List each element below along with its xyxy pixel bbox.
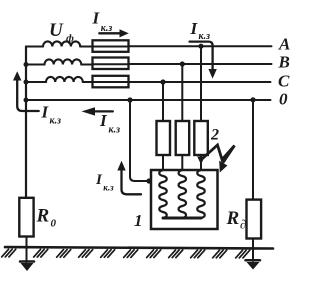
fuse F3 phase C xyxy=(93,76,129,88)
fuse F6 machine phase A xyxy=(194,121,208,155)
node: bus-line B junction xyxy=(24,62,29,67)
svg-text:I: I xyxy=(92,9,101,28)
resistor Rd repeated earthing xyxy=(247,200,262,239)
wire: Rd to earth xyxy=(252,239,254,262)
winding W1 phase C xyxy=(159,170,167,218)
wire: phase line C xyxy=(26,77,271,82)
current arrow I k.z up into star point xyxy=(13,71,61,126)
svg-text:B: B xyxy=(278,53,290,72)
svg-text:R: R xyxy=(226,208,240,229)
svg-text:I: I xyxy=(190,19,199,38)
svg-text:к.з: к.з xyxy=(109,125,121,136)
svg-text:к.з: к.з xyxy=(103,183,114,193)
node: bond at machine case xyxy=(146,178,151,183)
svg-text:I: I xyxy=(95,172,103,188)
svg-text:к.з: к.з xyxy=(101,23,113,34)
svg-text:к.з: к.з xyxy=(199,31,211,42)
node: bus-line C junction xyxy=(24,80,29,85)
node: line 0 tap to machine case xyxy=(127,97,132,102)
winding W3 phase A xyxy=(197,170,205,218)
svg-text:∂: ∂ xyxy=(240,218,246,232)
label R0 xyxy=(36,206,57,230)
resistor R0 neutral earthing xyxy=(19,198,33,237)
current arrow I k.z from line A down (fault path) xyxy=(190,19,217,79)
node: line B tap to machine xyxy=(180,61,185,66)
svg-text:R: R xyxy=(36,206,50,227)
label U phase voltage xyxy=(49,20,74,45)
label Rd xyxy=(226,208,247,232)
earth hatching xyxy=(2,249,250,258)
svg-text:A: A xyxy=(278,35,290,54)
fuse F4 machine phase C xyxy=(157,121,171,155)
ground electrode R0 xyxy=(20,262,34,272)
wire: phase line A xyxy=(26,41,272,46)
node: line 0 tap to Rd xyxy=(250,97,255,102)
svg-text:C: C xyxy=(278,72,290,91)
wire: drop from line A to machine fuse xyxy=(200,46,202,121)
winding W2 phase B xyxy=(179,170,187,218)
wire: drop from line B to machine fuse xyxy=(181,64,183,121)
wire: R0 to earth xyxy=(26,237,28,263)
ground electrode Rd xyxy=(246,260,261,269)
svg-text:2: 2 xyxy=(210,127,219,144)
wire: phase line B xyxy=(26,59,272,64)
fuse F2 phase B xyxy=(93,58,129,70)
fault lightning arrow xyxy=(203,145,235,173)
svg-text:0: 0 xyxy=(279,90,288,109)
node: line C tap to machine xyxy=(160,79,165,84)
wire: neutral bond line 0 to machine case xyxy=(130,100,151,181)
wire: line 0 down to Rd xyxy=(252,100,254,200)
svg-text:I: I xyxy=(99,111,108,130)
fuse F5 machine phase B xyxy=(176,121,190,155)
current arrow I k.z left along line 0 xyxy=(82,107,121,135)
current arrow I k.z up from machine case xyxy=(95,161,141,195)
current arrow I k.z above fuses xyxy=(92,9,129,38)
wire: fuse A to machine with current arrowhead xyxy=(197,155,205,170)
earth surface line xyxy=(5,247,273,248)
svg-text:I: I xyxy=(41,103,50,122)
fuse F1 phase A xyxy=(93,40,129,52)
svg-text:к.з: к.з xyxy=(50,116,62,127)
wire: fuse C to machine xyxy=(162,155,164,170)
machine 1 case xyxy=(151,170,218,229)
wire: transformer star-point bus xyxy=(25,47,27,198)
svg-text:0: 0 xyxy=(51,218,57,230)
wire: winding star bar xyxy=(163,217,201,220)
svg-text:U: U xyxy=(49,20,64,41)
wire: neutral line 0 xyxy=(26,99,271,101)
wire: drop from line C to machine fuse xyxy=(162,82,164,121)
wire: fuse B to machine xyxy=(181,155,183,170)
svg-text:ф: ф xyxy=(66,33,74,45)
node: line A tap to machine xyxy=(198,44,203,49)
svg-text:1: 1 xyxy=(134,211,143,230)
node: bus-line 0 junction xyxy=(24,98,29,103)
